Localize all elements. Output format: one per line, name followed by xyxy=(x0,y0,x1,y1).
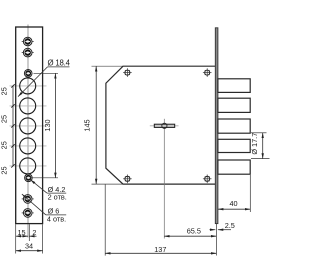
svg-text:130: 130 xyxy=(43,119,52,131)
svg-text:Ø 18.4: Ø 18.4 xyxy=(48,58,71,67)
svg-text:65.5: 65.5 xyxy=(187,227,201,236)
svg-text:Ø 17.7: Ø 17.7 xyxy=(250,133,259,155)
svg-text:25: 25 xyxy=(0,141,9,149)
svg-text:2.5: 2.5 xyxy=(225,221,235,230)
svg-text:137: 137 xyxy=(154,245,166,254)
svg-text:2 отв.: 2 отв. xyxy=(48,193,67,202)
svg-text:145: 145 xyxy=(83,119,92,131)
svg-text:25: 25 xyxy=(0,115,9,123)
svg-text:34: 34 xyxy=(25,241,33,250)
svg-text:2: 2 xyxy=(32,228,36,237)
svg-text:40: 40 xyxy=(229,199,237,208)
svg-text:4 отв.: 4 отв. xyxy=(47,214,66,223)
svg-text:15: 15 xyxy=(17,228,25,237)
svg-text:25: 25 xyxy=(0,87,9,95)
svg-text:25: 25 xyxy=(0,166,9,174)
